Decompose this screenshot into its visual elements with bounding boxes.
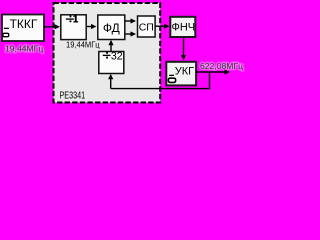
wire ÷1 to ФД xyxy=(87,24,97,29)
label РЕ3341 (IC name) xyxy=(60,89,86,100)
wire ФД to СП (lower) xyxy=(126,31,137,36)
svg-text:ФД: ФД xyxy=(103,21,120,35)
svg-text:СП: СП xyxy=(139,21,154,33)
wire ÷32 to ФД (up arrow) xyxy=(108,40,113,52)
svg-text:ФНЧ: ФНЧ xyxy=(171,22,195,34)
label 622,08МГц (output frequency, on magenta) xyxy=(200,61,243,71)
block phase detector ФД xyxy=(98,15,125,40)
block divider ÷1 xyxy=(61,15,86,40)
wire ТККГ to ÷1 xyxy=(44,24,60,29)
label 19,44МГц (inside IC) xyxy=(66,40,100,49)
wire ФНЧ to УКГ (down arrow) xyxy=(181,38,186,61)
crystal icon of УКГ xyxy=(168,75,175,83)
IC dashed box PE3341 xyxy=(54,3,161,103)
label 19,44МГц (input frequency, on magenta) xyxy=(5,43,43,53)
block charge pump СП xyxy=(138,16,156,37)
block TCXO ТККГ xyxy=(2,15,44,42)
svg-text:УКГ: УКГ xyxy=(175,66,194,78)
wire ФД to СП (upper) xyxy=(126,18,137,23)
svg-text:19,44МГц: 19,44МГц xyxy=(66,40,100,49)
crystal icon of ТККГ xyxy=(3,28,9,37)
svg-text:РЕ3341: РЕ3341 xyxy=(60,89,86,100)
block divider ÷32 xyxy=(99,51,124,74)
svg-text:19,44МГц: 19,44МГц xyxy=(5,43,43,53)
wire feedback branch (down from output) xyxy=(111,72,210,89)
wire УКГ output (to the right with arrowhead) xyxy=(196,69,230,74)
svg-text:ТККГ: ТККГ xyxy=(10,17,38,31)
svg-text:32: 32 xyxy=(111,51,123,63)
svg-text:622,08МГц: 622,08МГц xyxy=(200,61,243,71)
block VCXO УКГ xyxy=(166,62,196,86)
block low-pass filter ФНЧ xyxy=(170,17,195,37)
wire feedback into ÷32 (up arrow) xyxy=(108,74,113,89)
wire СП to ФНЧ (crosses dashed border) xyxy=(156,24,170,29)
